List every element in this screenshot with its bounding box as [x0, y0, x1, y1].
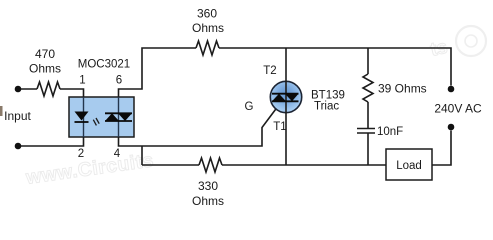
svg-text:470: 470	[35, 47, 55, 61]
svg-text:Ohms: Ohms	[192, 21, 224, 35]
svg-text:MOC3021: MOC3021	[78, 59, 130, 71]
svg-text:10nF: 10nF	[377, 126, 403, 138]
svg-text:39 Ohms: 39 Ohms	[378, 82, 427, 96]
svg-text:4: 4	[114, 148, 121, 160]
svg-text:Input: Input	[4, 109, 31, 123]
svg-text:6: 6	[116, 75, 122, 87]
svg-text:Triac: Triac	[314, 101, 339, 113]
svg-text:T1: T1	[273, 121, 286, 133]
svg-text:Ohms: Ohms	[192, 194, 224, 208]
svg-text:2: 2	[78, 148, 84, 160]
svg-text:330: 330	[198, 179, 218, 193]
svg-text:360: 360	[197, 7, 217, 21]
svg-text:T2: T2	[263, 65, 276, 77]
svg-text:Ohms: Ohms	[29, 62, 61, 76]
svg-text:1: 1	[79, 75, 85, 87]
svg-text:G: G	[245, 101, 254, 113]
svg-text:Load: Load	[396, 160, 422, 172]
svg-text:240V AC: 240V AC	[434, 102, 482, 116]
